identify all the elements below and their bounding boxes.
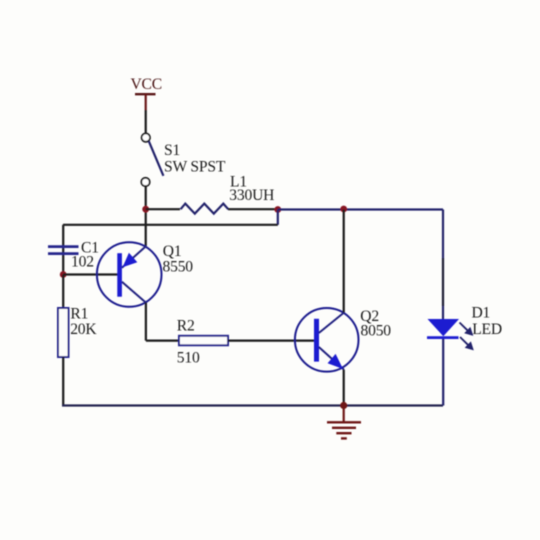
switch S1 lever xyxy=(149,141,164,176)
ground stem xyxy=(343,406,345,423)
wire node to L1 xyxy=(146,208,180,210)
transistor Q1 (PNP 8550) xyxy=(97,242,162,307)
D1 anode triangle xyxy=(428,319,460,336)
svg-text:D1: D1 xyxy=(472,305,491,322)
svg-text:510: 510 xyxy=(177,349,200,366)
wire R2 to Q2 base xyxy=(228,340,314,342)
switch S1 terminal 1 xyxy=(142,133,150,141)
inductor L1 (zigzag) xyxy=(181,204,229,214)
ground xyxy=(327,406,361,439)
D1 cathode bar xyxy=(427,336,459,339)
resistor R1 xyxy=(58,308,69,357)
wire node down to R1 xyxy=(62,275,64,309)
Q2 emitter arrow xyxy=(328,354,343,369)
Q2 collector lead xyxy=(319,312,344,333)
svg-text:8050: 8050 xyxy=(361,322,392,339)
VCC bar xyxy=(135,93,156,95)
svg-text:330UH: 330UH xyxy=(229,187,274,204)
wire D1 to bottom rail xyxy=(442,339,444,406)
wire node down to feedback line xyxy=(277,210,279,225)
node: junction dot at ground xyxy=(340,402,347,409)
Q1 body circle xyxy=(97,242,162,307)
wire top net to right rail xyxy=(278,208,443,210)
wire Q2 emitter down to bottom rail xyxy=(343,370,345,406)
wire Q2 collector up to node xyxy=(343,210,345,313)
svg-text:SW SPST: SW SPST xyxy=(164,159,226,176)
wire switch to node xyxy=(145,186,147,246)
C1 bottom plate xyxy=(48,252,79,255)
svg-text:R2: R2 xyxy=(177,318,195,335)
Q1 emitter arrow xyxy=(123,253,138,267)
svg-text:102: 102 xyxy=(71,254,94,271)
switch S1 terminal 2 xyxy=(141,178,149,186)
wire Q1 collector to R2 xyxy=(146,340,179,342)
svg-text:VCC: VCC xyxy=(131,76,162,93)
wire node to Q1 base xyxy=(63,273,118,275)
Q2 emitter lead xyxy=(319,347,344,370)
wire bottom rail xyxy=(62,404,443,406)
ground bar 1 xyxy=(327,421,361,423)
svg-text:S1: S1 xyxy=(164,142,180,159)
resistor R2 xyxy=(179,336,228,346)
svg-text:R1: R1 xyxy=(70,306,88,323)
wire R1 to bottom rail xyxy=(62,357,64,407)
VCC power symbol xyxy=(131,76,162,110)
wire right rail down to D1 xyxy=(442,210,444,259)
svg-text:8550: 8550 xyxy=(163,258,194,275)
Q2 body circle xyxy=(295,308,359,372)
ground bars 2-4 xyxy=(332,427,356,429)
wire left rail down to C1 xyxy=(62,225,64,275)
node: junction dot at C1/R1/Q1 base xyxy=(60,271,67,278)
Q1 emitter lead xyxy=(122,246,146,268)
wire VCC to switch S1 xyxy=(145,110,147,133)
Q1 collector lead xyxy=(122,282,146,303)
wire L1 to node xyxy=(228,208,278,210)
D1 emission arrows xyxy=(460,323,470,333)
Q1 base bar xyxy=(117,253,122,297)
LED D1 xyxy=(427,319,474,406)
Q2 base bar xyxy=(314,319,319,362)
transistor Q2 (NPN 8050) xyxy=(295,308,359,372)
C1 top plate xyxy=(48,245,79,248)
svg-text:20K: 20K xyxy=(70,321,97,338)
wire Q1 collector down xyxy=(145,303,147,341)
capacitor C1 xyxy=(48,247,79,254)
wire feedback line to left rail xyxy=(63,224,278,226)
node: junction dot left of L1 xyxy=(142,206,149,213)
node: junction dot right of L1 xyxy=(274,206,281,213)
node: junction dot above Q2 collector xyxy=(340,206,347,213)
svg-text:LED: LED xyxy=(472,321,502,338)
